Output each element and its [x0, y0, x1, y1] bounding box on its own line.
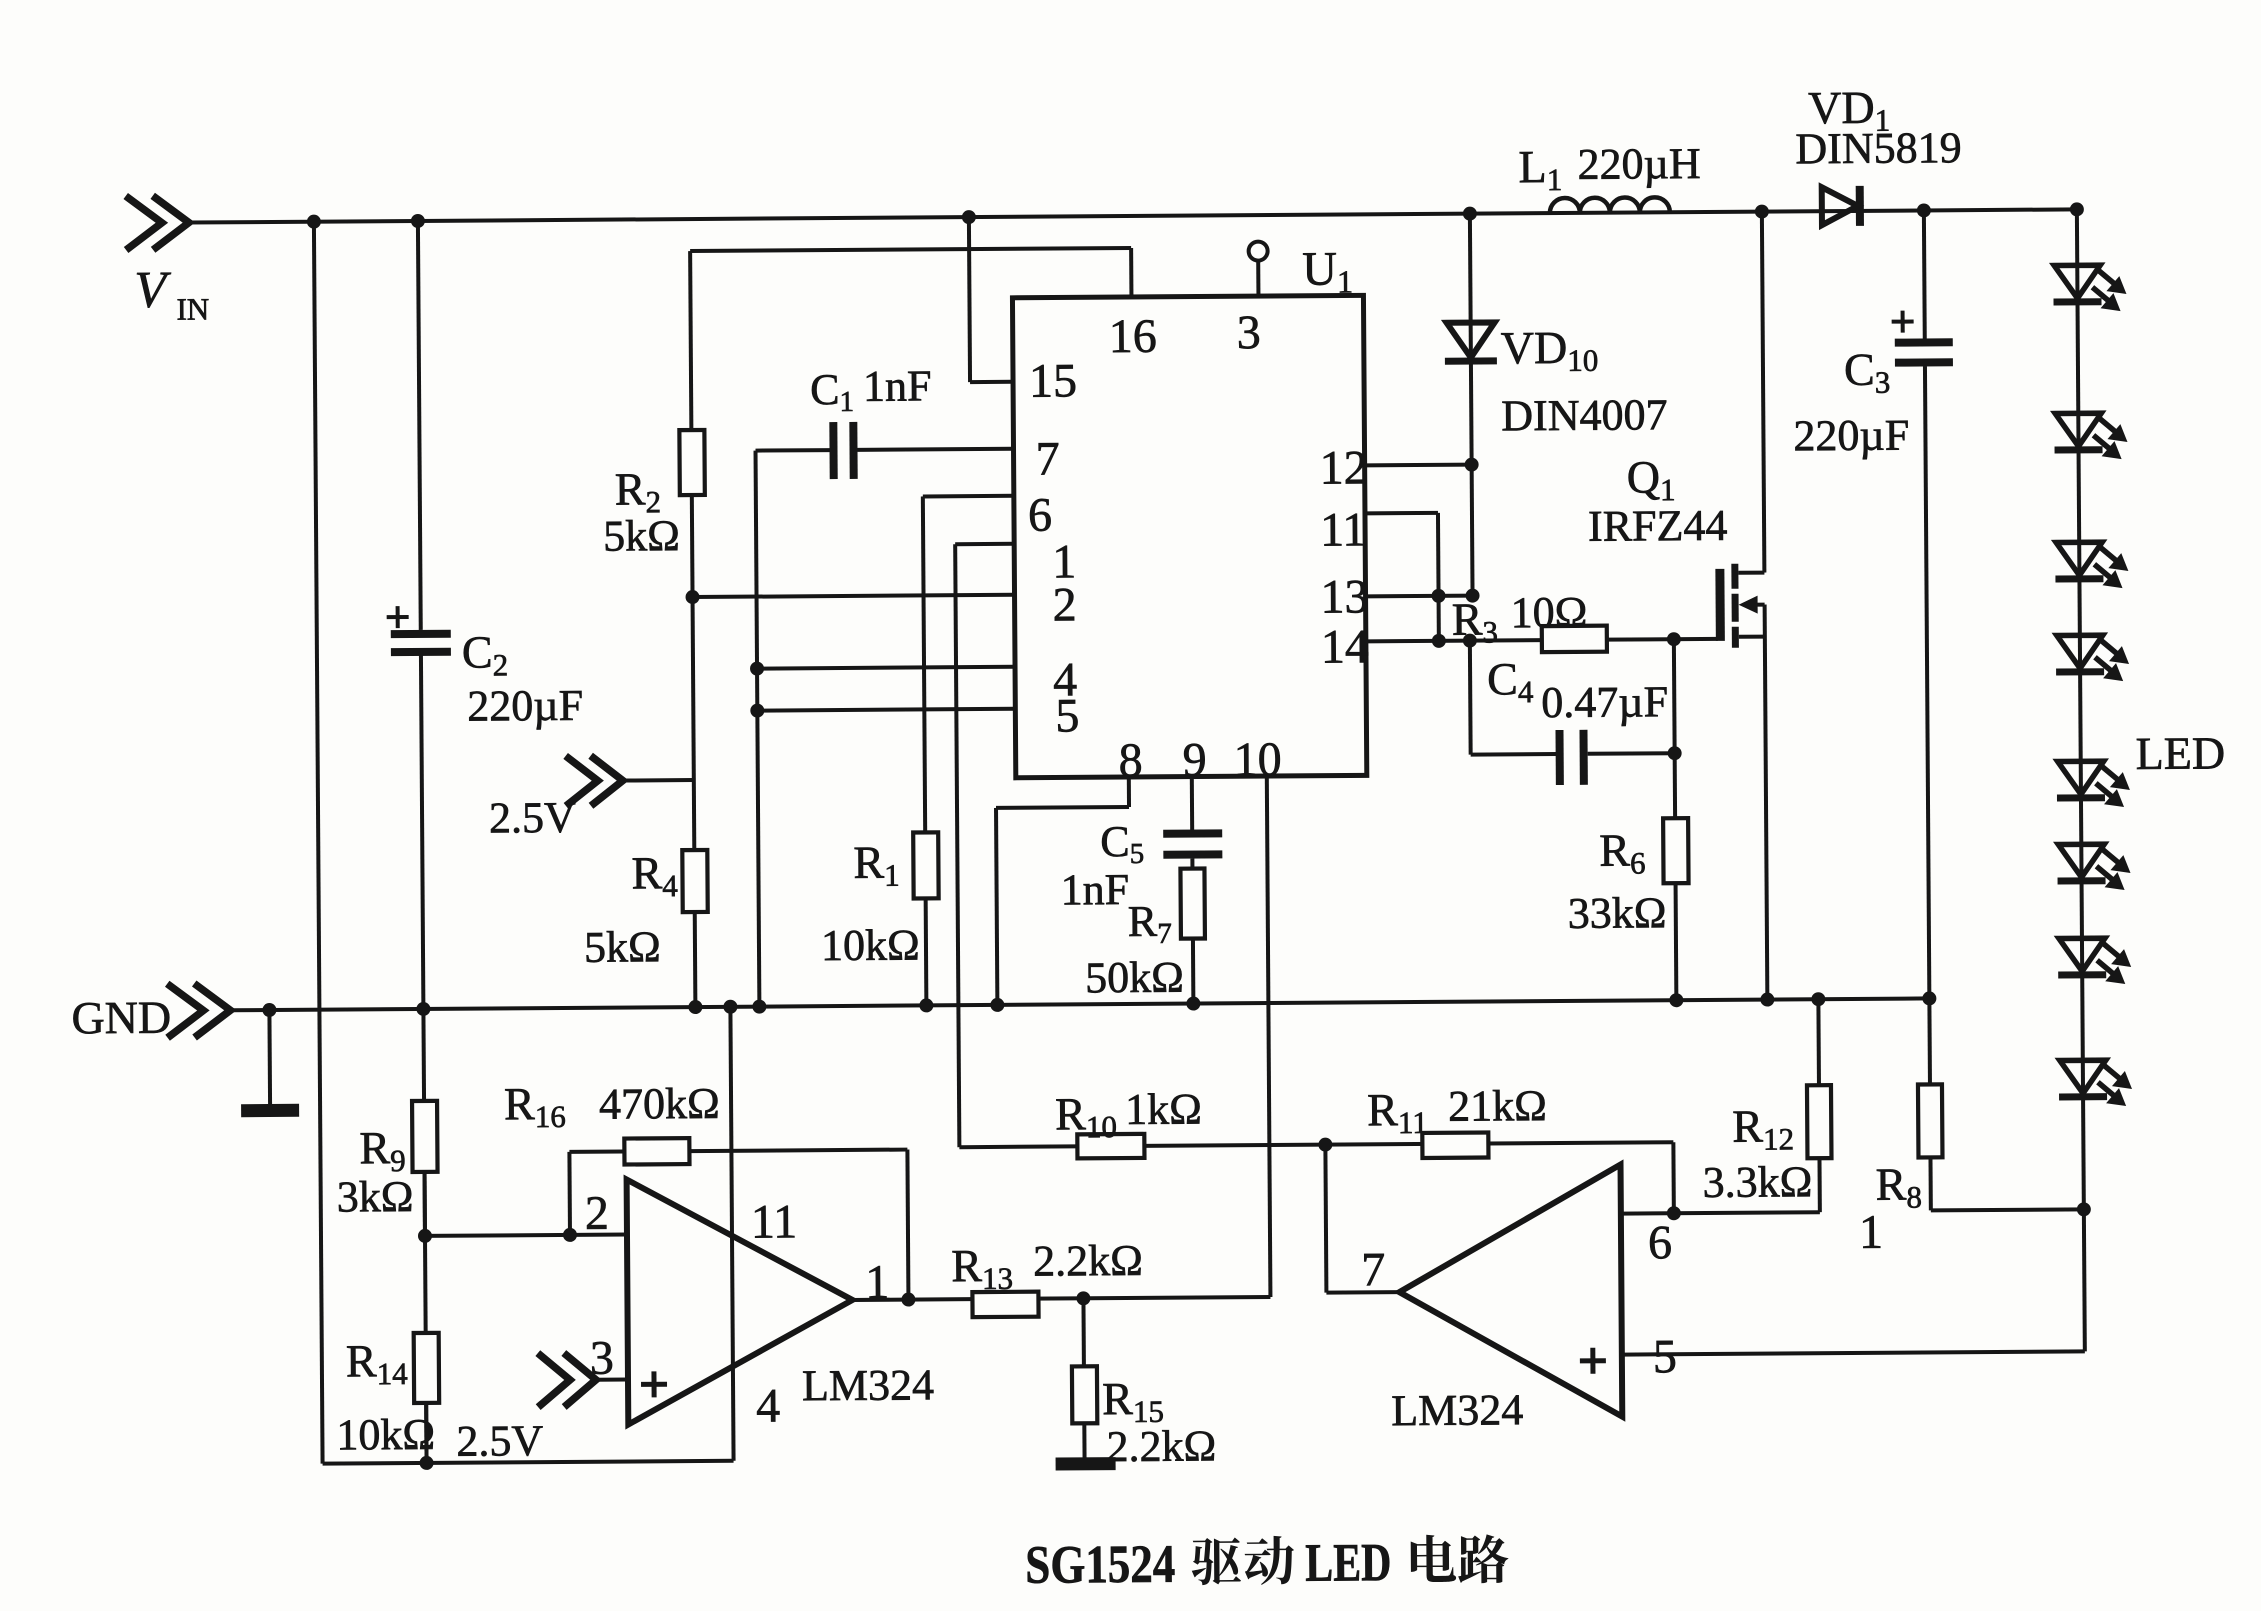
wire R16 loop [569, 1150, 908, 1302]
pin 4 label [1053, 653, 1077, 706]
resistor R15 [1072, 1365, 1216, 1471]
wire pin10 column [1267, 776, 1271, 1297]
svg-text:5kΩ: 5kΩ [584, 922, 661, 972]
pin 12 label [1319, 441, 1367, 494]
ground symbol (R15) [1056, 1457, 1116, 1470]
svg-text:470kΩ: 470kΩ [599, 1079, 720, 1129]
resistor R1 [820, 832, 939, 970]
pin 5 label (A2) [1653, 1330, 1677, 1383]
node 2.5V input (bottom) [456, 1353, 597, 1466]
wire pin11 loop [1365, 513, 1439, 642]
svg-text:Q1: Q1 [1627, 451, 1676, 507]
svg-text:LM324: LM324 [802, 1360, 934, 1410]
svg-text:220µH: 220µH [1577, 139, 1700, 189]
resistor R8 [1875, 1084, 1943, 1214]
junction R9/R14 node dot [418, 1229, 432, 1243]
pin 5 label [1055, 689, 1079, 742]
svg-text:1nF: 1nF [863, 361, 932, 410]
wire C1-ground column [756, 451, 760, 1007]
svg-text:LED: LED [2135, 727, 2225, 779]
pin 4 label (A1) [756, 1379, 780, 1432]
LED D4 [2056, 635, 2129, 682]
pin 11 label [1320, 503, 1367, 556]
pin 8 label [1119, 734, 1143, 787]
svg-text:13: 13 [1320, 570, 1368, 623]
svg-text:2.5V: 2.5V [489, 793, 576, 843]
pin 14 label [1321, 620, 1369, 673]
transistor Q1 IRFZ44 MOSFET [1588, 451, 1765, 649]
junction pin11/pin13 dots [1431, 458, 1480, 648]
svg-text:R15: R15 [1102, 1373, 1164, 1429]
svg-text:5kΩ: 5kΩ [603, 511, 680, 561]
svg-text:11: 11 [751, 1195, 798, 1248]
resistor R2 [602, 430, 705, 561]
svg-text:L1: L1 [1518, 141, 1562, 197]
wire Q1 source column [1765, 605, 1768, 1000]
svg-text:R11: R11 [1367, 1084, 1428, 1140]
pin 7 label [1035, 432, 1059, 485]
wire pin1 horizontal [955, 542, 1014, 546]
wire pin4 horizontal [757, 667, 1015, 669]
svg-text:R1: R1 [853, 837, 900, 893]
op-amp U1 SG1524 IC box [1012, 241, 1367, 778]
svg-text:R4: R4 [631, 847, 678, 903]
svg-text:0.47µF: 0.47µF [1541, 677, 1668, 727]
LED D6 [2057, 844, 2130, 891]
junction opamp1 pin2 dot [563, 1228, 577, 1242]
wire pin6 horizontal [923, 494, 1014, 499]
junction LED/R8/pin5 node dot [2077, 1202, 2091, 1216]
wire LED string column [2077, 209, 2084, 1209]
wire R1 to ground bus [924, 898, 929, 1005]
wire opamp2 pin6 line [1621, 1212, 1820, 1213]
capacitor C4 [1487, 652, 1669, 785]
wire R12 column [1818, 999, 1819, 1212]
wire gate node drop [1672, 639, 1677, 753]
junction bottom rail dot [420, 1456, 434, 1470]
svg-text:6: 6 [1648, 1216, 1672, 1269]
svg-text:1: 1 [1859, 1206, 1883, 1259]
wire R15 column [1083, 1298, 1084, 1459]
pin 1 label (A1) [865, 1256, 889, 1309]
wire C4 horizontal [1471, 753, 1675, 754]
svg-text:IRFZ44: IRFZ44 [1588, 501, 1728, 551]
resistor R6 [1567, 818, 1689, 938]
svg-text:220µF: 220µF [1793, 411, 1909, 461]
svg-text:7: 7 [1035, 432, 1059, 485]
wire C2/R9/R14 column [418, 221, 427, 1463]
diode VD10 [1444, 212, 1669, 596]
svg-text:15: 15 [1029, 354, 1077, 407]
svg-text:10kΩ: 10kΩ [821, 920, 920, 970]
svg-text:10Ω: 10Ω [1510, 588, 1587, 638]
pin 7 label (A2) [1361, 1243, 1385, 1296]
svg-text:21kΩ: 21kΩ [1448, 1081, 1547, 1131]
pin 1 label [1052, 535, 1076, 588]
capacitor C1 [810, 361, 932, 479]
svg-text:3: 3 [1237, 306, 1261, 359]
svg-text:2.5V: 2.5V [456, 1416, 543, 1466]
wire R8 bottom [1930, 1156, 2083, 1210]
op-amp A1 LM324 (left) [627, 1177, 935, 1424]
svg-text:6: 6 [1028, 489, 1052, 542]
svg-text:C3: C3 [1844, 344, 1891, 400]
svg-text:DIN5819: DIN5819 [1795, 123, 1962, 173]
wire C4 left drop [1468, 641, 1473, 755]
node LED string label [2135, 727, 2225, 779]
pin 3 label [1237, 306, 1261, 359]
capacitor C5 [1060, 816, 1223, 914]
wire pin14/gate horizontal [1366, 639, 1718, 641]
wire R7 to ground bus [1191, 939, 1195, 1004]
junction pin6 line dot [1667, 1206, 1681, 1220]
junction pin4/pin5 ground dots [750, 662, 764, 718]
wire pin15 riser [969, 217, 1013, 382]
wire opamp1 output [852, 1297, 1270, 1300]
wire R9 to node [423, 1172, 427, 1236]
wire R2 column top corner [690, 251, 691, 430]
wire opamp1 noninverting input [596, 1378, 628, 1382]
svg-text:2.2kΩ: 2.2kΩ [1033, 1236, 1143, 1286]
pin 10 label [1234, 733, 1282, 786]
resistor R11 [1367, 1081, 1547, 1158]
svg-text:9: 9 [1183, 733, 1207, 786]
resistor R10 [1055, 1085, 1202, 1159]
node 1 label [1859, 1206, 1883, 1259]
junction pin2/R2 dot [685, 590, 699, 604]
ground symbol (input) [240, 1010, 299, 1117]
svg-text:U1: U1 [1302, 242, 1353, 299]
wire opamp2 pin5 line [1621, 1209, 2085, 1354]
wire top VIN rail [189, 209, 2077, 222]
LED D2 [2054, 413, 2127, 460]
svg-text:R6: R6 [1599, 824, 1646, 880]
wire pin6/R1 column [923, 496, 925, 832]
svg-text:16: 16 [1109, 310, 1157, 363]
pin 9 label [1183, 733, 1207, 786]
wire pin7/C1 horizontal [756, 449, 1014, 451]
op-amp A2 LM324 (right) [1390, 1165, 1623, 1436]
svg-text:5: 5 [1653, 1330, 1677, 1383]
svg-text:C4: C4 [1487, 653, 1534, 709]
svg-text:R16: R16 [504, 1078, 566, 1134]
svg-text:C1: C1 [810, 365, 854, 418]
pin 2 label (A1) [585, 1187, 609, 1240]
wire R14 to bottom rail [424, 1403, 428, 1463]
svg-text:50kΩ: 50kΩ [1085, 953, 1184, 1003]
svg-text:R12: R12 [1732, 1100, 1794, 1156]
pin 3 label (A1) [590, 1332, 614, 1385]
resistor R14 [336, 1333, 440, 1460]
svg-text:2: 2 [1052, 578, 1076, 631]
svg-text:R7: R7 [1128, 897, 1172, 950]
wire R8 top [1927, 998, 1932, 1084]
wire R6 to ground bus [1674, 883, 1679, 1000]
svg-text:14: 14 [1321, 620, 1369, 673]
svg-text:R10: R10 [1055, 1088, 1117, 1144]
svg-text:2: 2 [585, 1187, 609, 1240]
wire pin5 horizontal [757, 709, 1015, 711]
wire pin16 feed horizontal [690, 248, 1131, 300]
pin 16 label [1109, 310, 1157, 363]
resistor R4 [583, 847, 708, 972]
LED D5 [2057, 761, 2130, 808]
junction R10/R11 line dot [1318, 1138, 1332, 1152]
wire left VIN column [314, 222, 323, 1464]
diode VD1 [1795, 81, 1962, 226]
pin 13 label [1320, 570, 1368, 623]
node VIN input terminal [126, 195, 210, 327]
resistor R16 [504, 1077, 720, 1166]
wire R4 to ground bus [693, 912, 698, 1007]
svg-text:3kΩ: 3kΩ [337, 1172, 414, 1222]
capacitor C3 [1793, 310, 1954, 460]
svg-text:12: 12 [1319, 441, 1367, 494]
node GND input terminal [71, 983, 230, 1043]
junction ground bus dots [262, 991, 1936, 1017]
resistor R9 [336, 1101, 438, 1222]
wire pin8 column [996, 777, 1131, 1005]
pin 6 label [1028, 489, 1052, 542]
wire opamp2 output riser [1325, 1144, 1399, 1293]
wire R11 right drop [1671, 1142, 1675, 1213]
svg-text:SG1524: SG1524 [1025, 1534, 1175, 1595]
pin 2 label [1052, 578, 1076, 631]
svg-text:1kΩ: 1kΩ [1125, 1085, 1202, 1135]
capacitor C2 [387, 605, 584, 731]
wire bottom rail [323, 1461, 734, 1464]
svg-text:11: 11 [1320, 503, 1367, 556]
resistor R12 [1702, 1085, 1832, 1207]
svg-text:220µF: 220µF [467, 681, 583, 731]
wire pin1/R10 column [955, 544, 959, 1147]
wire ground bus [230, 998, 1929, 1010]
svg-text:4: 4 [756, 1379, 780, 1432]
wire R2 to R4 segment [692, 495, 694, 850]
wire pin2 horizontal [693, 595, 1015, 597]
svg-text:1nF: 1nF [1060, 865, 1129, 914]
svg-text:R13: R13 [951, 1240, 1013, 1296]
svg-text:GND: GND [71, 992, 171, 1044]
LED D3 [2055, 542, 2128, 589]
wire pin9/C5 column [1190, 777, 1194, 831]
resistor R3 [1451, 588, 1606, 653]
pin 15 label [1029, 354, 1077, 407]
wire pin13 horizontal [1366, 594, 1473, 599]
svg-text:LED: LED [1305, 1532, 1391, 1593]
svg-text:5: 5 [1055, 689, 1079, 742]
svg-text:R14: R14 [346, 1335, 409, 1391]
LED D1 [2053, 265, 2126, 312]
wire pin12 horizontal [1365, 463, 1472, 468]
svg-text:DIN4007: DIN4007 [1501, 390, 1668, 440]
svg-text:VD10: VD10 [1501, 322, 1599, 379]
junction top rail dots [307, 202, 2084, 228]
wire 2.5V to R column [620, 778, 694, 783]
svg-text:2.2kΩ: 2.2kΩ [1106, 1421, 1216, 1471]
pin 11 label (A1) [751, 1195, 798, 1248]
junction C4/R6 dot [1668, 746, 1682, 760]
resistor R7 [1084, 868, 1205, 1002]
svg-text:IN: IN [176, 291, 209, 326]
pin 6 label (A2) [1648, 1216, 1672, 1269]
wire opamp1 inverting input [425, 1235, 627, 1236]
svg-text:V: V [134, 262, 171, 319]
wire R6 column [1673, 753, 1677, 818]
svg-text:10: 10 [1234, 733, 1282, 786]
wire C5 to R7 [1190, 859, 1194, 869]
svg-text:C5: C5 [1100, 817, 1144, 870]
caption SG1524 drive LED circuit [1025, 1531, 1509, 1594]
svg-text:LM324: LM324 [1391, 1385, 1523, 1435]
junction opamp1 output dots [901, 1291, 1090, 1306]
svg-text:10kΩ: 10kΩ [336, 1410, 435, 1460]
wire R10/R11 horizontal [959, 1142, 1673, 1147]
svg-text:C2: C2 [462, 626, 509, 682]
wire opamp1 supply column [730, 1007, 733, 1461]
wire C3/R8 column [1924, 210, 1930, 998]
inductor L1 [1518, 139, 1701, 213]
svg-text:3.3kΩ: 3.3kΩ [1702, 1157, 1812, 1207]
node 2.5V input (top) [489, 756, 624, 843]
LED D7 [2058, 938, 2131, 985]
LED D8 [2059, 1060, 2132, 1107]
svg-text:7: 7 [1361, 1243, 1385, 1296]
svg-text:R9: R9 [359, 1122, 406, 1178]
wire Q1 drain column [1762, 212, 1765, 573]
svg-text:33kΩ: 33kΩ [1568, 888, 1667, 938]
resistor R13 [951, 1236, 1143, 1317]
junction pin14 line dots [1463, 632, 1681, 648]
